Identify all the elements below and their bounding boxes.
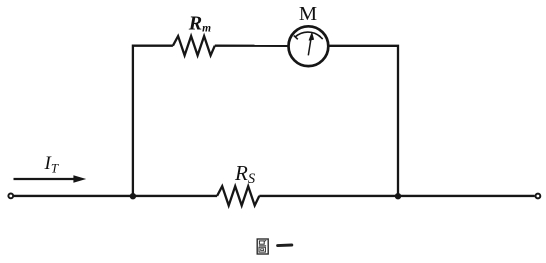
wire: node A to Rs xyxy=(133,195,217,197)
caption: character 一 xyxy=(278,244,292,248)
wire: Rs to node B xyxy=(259,195,398,197)
meter scale arc xyxy=(295,32,321,37)
current arrow IT xyxy=(14,175,87,183)
node B junction dot xyxy=(395,193,401,199)
left open terminal xyxy=(8,194,13,199)
caption: character 圖 xyxy=(257,239,268,254)
meter scale left tick xyxy=(294,36,298,40)
resistor Rm xyxy=(173,36,215,55)
right open terminal xyxy=(536,194,541,199)
meter needle xyxy=(308,39,311,55)
wire: Rm to meter xyxy=(215,45,289,47)
resistor RS xyxy=(217,186,259,205)
meter needle arrowhead xyxy=(309,33,314,41)
node A junction dot xyxy=(130,193,136,199)
wire: node B to right terminal xyxy=(398,195,535,197)
svg-text:M: M xyxy=(299,3,317,25)
meter M xyxy=(289,26,329,66)
wire: meter to right vertical branch xyxy=(328,46,398,196)
wire: left terminal to node A (bottom rail) xyxy=(14,195,133,197)
wire: left vertical branch xyxy=(133,46,173,196)
meter scale right tick xyxy=(319,35,323,39)
meter circle xyxy=(289,26,329,66)
